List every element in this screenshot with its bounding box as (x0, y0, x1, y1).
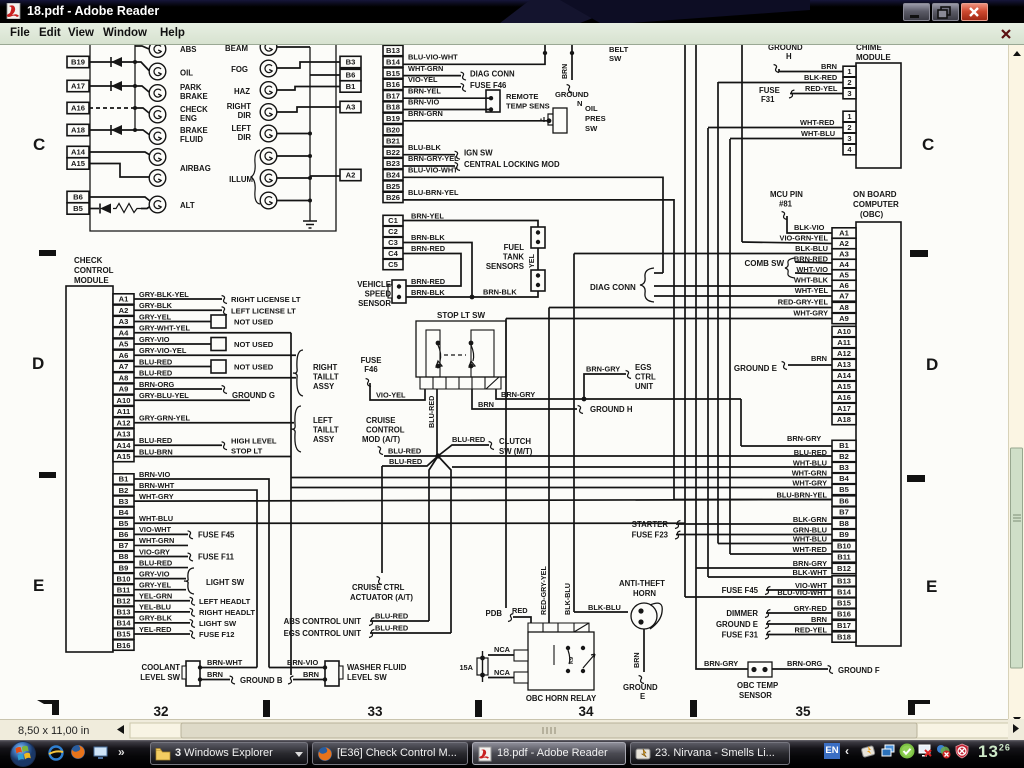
svg-text:RED-YEL: RED-YEL (795, 626, 828, 635)
svg-text:FUSE F11: FUSE F11 (198, 552, 235, 561)
oil pres sw contact (547, 118, 552, 123)
taskbar button: 18.pdf Adobe Reader (active) (472, 742, 626, 765)
restore button (932, 3, 959, 21)
close button (961, 3, 988, 21)
svg-text:TEMP SENS: TEMP SENS (506, 102, 550, 111)
belt sw pin 2 (571, 45, 573, 53)
wire ILLUM3 to bus (277, 200, 310, 202)
hook LIGHT SW 2 (190, 619, 195, 627)
wire A15 BLU-BRN (134, 456, 291, 458)
wire bus to B6 (310, 74, 340, 76)
vertical taillight/ground bus x291 (290, 333, 292, 675)
OBC pin B1 (832, 440, 856, 450)
lamp AIRBAG 2 (149, 170, 166, 187)
bus wire x730 WHT-BLU (729, 139, 731, 554)
cluster pin A17 (67, 80, 89, 91)
check control pin A10 (113, 395, 134, 405)
svg-text:CLUTCH: CLUTCH (499, 437, 531, 446)
svg-text:BRN: BRN (811, 615, 827, 624)
svg-text:VIO-YEL: VIO-YEL (376, 391, 406, 400)
svg-text:SPEED: SPEED (365, 290, 392, 299)
svg-text:B17: B17 (837, 621, 851, 630)
svg-text:OBC HORN RELAY: OBC HORN RELAY (526, 694, 597, 703)
svg-text:B4: B4 (119, 508, 129, 517)
OBC pin B13 (832, 576, 856, 586)
OBC pin B5 (832, 484, 856, 494)
column tick 33/34 (475, 700, 482, 717)
svg-text:GROUND E: GROUND E (734, 364, 778, 373)
svg-text:A9: A9 (119, 385, 129, 394)
minimize button (903, 3, 930, 21)
vertical BLK-BLU to horn (573, 254, 575, 613)
hook CLUTCH SW (489, 442, 494, 450)
svg-text:A2: A2 (346, 171, 356, 180)
wire WHT-GRN to OBC B4 (291, 477, 832, 479)
svg-text:B19: B19 (386, 114, 400, 123)
svg-text:HORN: HORN (633, 589, 656, 598)
svg-text:STOP LT SW: STOP LT SW (437, 311, 485, 320)
wire A6 GRY-VIO-YEL (134, 354, 296, 356)
svg-text:B10: B10 (117, 574, 131, 583)
wire RED-YEL to chime 3 (790, 93, 843, 95)
wire A8 BLU-RED (134, 377, 296, 379)
wire GRN-BLU fuse f23 to OBC B9 (676, 534, 832, 536)
svg-text:B14: B14 (837, 588, 852, 597)
check control pin A2 (113, 305, 134, 315)
wire jog OIL (135, 62, 149, 71)
belt sw contact 1 (543, 51, 547, 55)
cluster pin B6 (67, 191, 89, 202)
svg-text:A3: A3 (839, 250, 849, 259)
check control pin B13 (113, 607, 134, 617)
svg-text:CRUISE: CRUISE (366, 416, 395, 425)
svg-text:B9: B9 (119, 563, 129, 572)
OBC pin A13 (832, 359, 856, 369)
svg-text:GRY-VIO-YEL: GRY-VIO-YEL (139, 346, 187, 355)
wire B8 VIO-GRY (134, 555, 188, 557)
wire A7 BLU-RED (134, 366, 211, 368)
oil pressure switch symbol (553, 108, 567, 133)
OBC pin A14 (832, 370, 856, 380)
wire BRN-GRY stop sw to ground H rail (496, 389, 741, 399)
svg-text:WHT-BLU: WHT-BLU (793, 459, 827, 468)
svg-text:GROUND: GROUND (623, 683, 658, 692)
svg-text:A2: A2 (839, 239, 849, 248)
wire WHT-RED to chime conn2 pin2 (708, 127, 843, 129)
svg-text:A11: A11 (117, 407, 131, 416)
quick launch Firefox icon (70, 744, 86, 760)
svg-text:GROUND F: GROUND F (838, 666, 880, 675)
svg-text:WHT-RED: WHT-RED (793, 545, 828, 554)
svg-text:D: D (926, 355, 938, 374)
OBC pin A12 (832, 348, 856, 358)
svg-text:BLU-BLK: BLU-BLK (408, 143, 442, 152)
svg-text:BLU-RED: BLU-RED (388, 447, 422, 456)
svg-text:A10: A10 (117, 396, 131, 405)
svg-text:BRN-ORG: BRN-ORG (139, 380, 175, 389)
svg-text:ANTI-THEFT: ANTI-THEFT (619, 579, 665, 588)
svg-text:GRY-YEL: GRY-YEL (139, 581, 172, 590)
wire BLK-WHT to OBC B13 (708, 576, 832, 578)
relay internals (566, 646, 570, 650)
wire GRY-RED dimmer to OBC B16 (766, 612, 832, 614)
washer fluid level sw box (325, 661, 339, 686)
connector pin B16 (383, 79, 403, 89)
svg-text:B4: B4 (839, 474, 849, 483)
svg-text:FLUID: FLUID (180, 135, 203, 144)
svg-text:A8: A8 (839, 303, 849, 312)
wire EGS control unit (370, 632, 451, 634)
check control pin B8 (113, 551, 134, 561)
svg-text:B3: B3 (346, 58, 356, 67)
svg-text:BLU-RED: BLU-RED (427, 396, 436, 428)
wire BLU-RED cruise mod to junction (384, 455, 438, 457)
svg-text:A11: A11 (837, 338, 851, 347)
svg-text:BRN: BRN (207, 670, 223, 679)
wire BLU-RED to cruise actuator (381, 466, 383, 573)
svg-text:HIGH LEVEL: HIGH LEVEL (231, 436, 277, 445)
bus wire x708 WHT-RED (707, 128, 709, 577)
wire WHT-GRY to OBC B5 (291, 487, 832, 489)
NOT USED terminator A3 (211, 315, 226, 328)
wire BRN ground E to OBC B17 (766, 623, 832, 625)
svg-text:BRN-VIO: BRN-VIO (139, 470, 170, 479)
svg-text:GROUND: GROUND (555, 90, 589, 99)
hook GROUND E horn (639, 676, 644, 684)
svg-text:#81: #81 (779, 200, 793, 209)
cluster pin B19 (67, 56, 89, 67)
hook CENTRAL LOCKING MOD (455, 163, 460, 171)
ground N hook (567, 85, 572, 93)
hook EGS CTRL UNIT (626, 371, 631, 379)
belt sw pin 1 (544, 45, 546, 53)
svg-text:CRUISE CTRL: CRUISE CTRL (352, 583, 405, 592)
hook FUSE F46 b16 (461, 83, 466, 91)
hook EGS CONTROL UNIT (369, 630, 374, 638)
svg-text:B1: B1 (346, 82, 356, 91)
cluster pin right A2 (340, 169, 361, 180)
OBC pin B11 (832, 552, 856, 562)
svg-text:NCA: NCA (494, 645, 511, 654)
check control pin A5 (113, 339, 134, 349)
svg-text:N: N (577, 99, 582, 108)
connector pin B22 (383, 147, 403, 157)
OBC pin B15 (832, 598, 856, 608)
wire RED-GRY-YEL to OBC A8 (549, 307, 832, 309)
hook PDB (508, 614, 513, 622)
svg-text:B21: B21 (386, 137, 401, 146)
svg-text:BELT: BELT (609, 45, 629, 54)
cluster right ground bus (309, 47, 311, 221)
lamp BEAM (260, 39, 277, 56)
svg-text:FUSE F46: FUSE F46 (470, 81, 507, 90)
svg-text:CENTRAL LOCKING MOD: CENTRAL LOCKING MOD (464, 160, 560, 169)
wire B17 BRN-YEL (403, 97, 489, 99)
svg-text:A14: A14 (117, 441, 132, 450)
svg-text:SENSORS: SENSORS (486, 262, 524, 271)
svg-text:B10: B10 (837, 542, 851, 551)
svg-text:C: C (922, 135, 934, 154)
svg-text:NOT USED: NOT USED (234, 318, 274, 327)
wire B18 BRN-VIO (403, 109, 489, 111)
wire C4 BRN-RED to VSS (403, 254, 461, 287)
svg-text:BLU-RED: BLU-RED (139, 357, 173, 366)
svg-text:GRN-BLU: GRN-BLU (793, 526, 827, 535)
svg-text:B18: B18 (837, 633, 851, 642)
svg-text:FUSE: FUSE (361, 356, 382, 365)
svg-text:BLK-BLU: BLK-BLU (563, 583, 572, 615)
check control pin B4 (113, 507, 134, 517)
lamp RIGHT DIR (260, 104, 277, 121)
svg-text:B24: B24 (386, 171, 401, 180)
connector pin C3 (383, 237, 403, 247)
svg-text:BLU-RED: BLU-RED (139, 369, 173, 378)
fuel tank sensor upper (531, 227, 545, 248)
svg-text:PRES: PRES (585, 114, 606, 123)
svg-text:BLU-BRN: BLU-BRN (139, 447, 173, 456)
svg-text:DIMMER: DIMMER (726, 609, 758, 618)
svg-text:TAILLT: TAILLT (313, 426, 339, 435)
stop sw arm 1 (436, 345, 442, 367)
svg-text:VIO-WHT: VIO-WHT (139, 525, 172, 534)
stop lt sw bottom connector row (420, 377, 501, 389)
wire BRN-GRY to OBC B12 (696, 567, 832, 569)
wire RIGHT DIR to A3 (277, 107, 340, 112)
svg-text:FUSE F45: FUSE F45 (198, 530, 235, 539)
svg-text:B15: B15 (837, 599, 852, 608)
svg-text:OIL: OIL (180, 69, 193, 78)
NOT USED terminator A5 (211, 338, 226, 351)
wire coolant BRN to ground B (200, 679, 230, 681)
wire WHT-BLU to OBC B3 (452, 466, 832, 468)
svg-text:ENG: ENG (180, 114, 197, 123)
hook FUSE F45 right (765, 587, 770, 595)
remote temp sensor box (486, 90, 500, 112)
svg-text:B6: B6 (346, 71, 356, 80)
svg-text:2: 2 (847, 78, 851, 87)
svg-text:B13: B13 (837, 577, 851, 586)
taskbar button: 3 Windows Explorer (150, 742, 308, 765)
svg-text:B15: B15 (386, 69, 401, 78)
svg-text:VIO-GRY: VIO-GRY (139, 547, 170, 556)
svg-text:A8: A8 (119, 373, 129, 382)
bottom-left crop corner (37, 700, 59, 715)
title bar (0, 0, 1024, 23)
svg-text:STARTER: STARTER (632, 520, 669, 529)
svg-text:GROUND: GROUND (768, 45, 803, 52)
wire BRN-GRY to OBC B1 (741, 445, 832, 447)
wire BLU-RED 2 to junction (382, 456, 438, 466)
relay left pin boxes (514, 650, 528, 661)
svg-text:VEHICLE: VEHICLE (357, 280, 391, 289)
stop sw contact 2b (469, 364, 474, 369)
taskbar (0, 740, 1024, 768)
check control pin B3 (113, 496, 134, 506)
hook GROUND G (222, 386, 227, 394)
connector pin C5 (383, 259, 403, 269)
lamp ABS (149, 41, 166, 58)
quick launch IE icon (48, 745, 64, 761)
coolant level sw box (186, 661, 200, 686)
svg-text:GRY-BLK: GRY-BLK (139, 614, 173, 623)
hook DIAG CONN b15 (461, 72, 466, 80)
svg-text:A14: A14 (837, 371, 852, 380)
check control pin B12 (113, 596, 134, 606)
svg-text:A4: A4 (839, 260, 849, 269)
svg-text:BRN-BLK: BRN-BLK (411, 288, 445, 297)
check control pin A6 (113, 350, 134, 360)
stop sw contact 1b (436, 364, 441, 369)
svg-text:32: 32 (153, 704, 168, 719)
check control pin B7 (113, 540, 134, 550)
OBC pin A5 (832, 270, 856, 280)
svg-text:FUSE F45: FUSE F45 (722, 586, 759, 595)
svg-text:B13: B13 (386, 46, 400, 55)
OBC pin A8 (832, 302, 856, 312)
wire WHT-GRY to OBC A9 (506, 318, 832, 320)
svg-text:BLU-RED: BLU-RED (452, 435, 486, 444)
hook GROUND B right (288, 676, 293, 684)
hook DIMMER (765, 610, 770, 618)
svg-text:A1: A1 (839, 229, 849, 238)
svg-text:COOLANT: COOLANT (141, 663, 180, 672)
svg-text:RED-GRY-YEL: RED-GRY-YEL (539, 566, 548, 615)
instrument cluster box (90, 45, 336, 231)
svg-text:B14: B14 (117, 619, 132, 628)
check control pin B9 (113, 562, 134, 572)
svg-text:NOT USED: NOT USED (234, 340, 274, 349)
svg-text:B9: B9 (839, 530, 849, 539)
hook FUSE F31 b18 (765, 631, 770, 639)
svg-text:YEL-GRN: YEL-GRN (139, 592, 172, 601)
svg-text:BLU-RED: BLU-RED (375, 624, 409, 633)
svg-text:WHT-BLK: WHT-BLK (794, 276, 829, 285)
wire B13 YEL-BLU (134, 611, 190, 613)
wire B23 BRN-GRY-YEL (403, 165, 455, 167)
hook GROUND E A13 (782, 362, 787, 370)
svg-text:LIGHT SW: LIGHT SW (199, 619, 237, 628)
svg-text:B6: B6 (119, 530, 129, 539)
wire BLK-BLU to OBC A3 (574, 253, 832, 255)
wire B7 WHT-GRN (134, 544, 188, 546)
wire NCA lower (488, 677, 514, 679)
svg-text:B17: B17 (386, 91, 400, 100)
svg-text:A17: A17 (837, 404, 851, 413)
svg-text:B11: B11 (117, 585, 131, 594)
svg-text:BRN: BRN (821, 62, 837, 71)
cluster pin right B1 (340, 81, 361, 92)
svg-text:NOT USED: NOT USED (234, 363, 274, 372)
svg-text:MOD (A/T): MOD (A/T) (362, 435, 401, 444)
status bar with horizontal scrollbar (0, 719, 1008, 740)
wire VSS BRN-BLK (406, 296, 472, 298)
OBC pin A9 (832, 313, 856, 323)
wire BRN stop sw to ground H (472, 389, 577, 409)
svg-text:WHT-YEL: WHT-YEL (795, 286, 829, 295)
wire B12 YEL-GRN (134, 600, 190, 602)
svg-text:BLU-VIO-WHT: BLU-VIO-WHT (777, 588, 827, 597)
svg-text:ASSY: ASSY (313, 382, 335, 391)
svg-text:BRN-RED: BRN-RED (411, 277, 446, 286)
wire B15 YEL-RED (134, 633, 190, 635)
svg-text:COMB SW: COMB SW (744, 259, 784, 268)
svg-text:B1: B1 (119, 475, 129, 484)
svg-text:WASHER FLUID: WASHER FLUID (347, 663, 407, 672)
check control pin A12 (113, 418, 134, 428)
svg-text:CONTROL: CONTROL (366, 426, 405, 435)
svg-text:LEFT HEADLT: LEFT HEADLT (199, 597, 251, 606)
wire ILLUM2 to bus (277, 177, 310, 179)
connector pin B20 (383, 124, 403, 134)
lamp LEFT DIR (260, 125, 277, 142)
hook GROUND H top (774, 65, 779, 73)
svg-text:PARK: PARK (180, 83, 202, 92)
OBC pin A3 (832, 249, 856, 259)
svg-text:B8: B8 (119, 552, 129, 561)
svg-text:SW: SW (585, 124, 598, 133)
svg-text:C5: C5 (388, 260, 398, 269)
wire B5 WHT-BLU long (134, 522, 685, 524)
belt sw contact 2 (570, 51, 574, 55)
svg-text:(OBC): (OBC) (860, 210, 883, 219)
svg-text:A13: A13 (837, 360, 851, 369)
svg-text:CONTROL: CONTROL (74, 266, 114, 275)
svg-text:A6: A6 (839, 281, 849, 290)
on board computer box (856, 222, 901, 646)
svg-text:RIGHT: RIGHT (227, 102, 251, 111)
svg-text:A7: A7 (119, 362, 129, 371)
svg-text:BRN-WHT: BRN-WHT (207, 658, 243, 667)
svg-text:YEL-RED: YEL-RED (139, 625, 172, 634)
scrollbar up arrow (1009, 45, 1024, 719)
hook FUSE F45 left (188, 531, 193, 539)
svg-text:B16: B16 (837, 610, 851, 619)
svg-text:WHT-GRY: WHT-GRY (792, 479, 827, 488)
lamp BRAKE FLUID (149, 128, 166, 145)
hook GROUND E b17 (765, 621, 770, 629)
svg-text:GRY-VIO: GRY-VIO (139, 335, 170, 344)
wire jog ABS (135, 46, 149, 49)
OBC pin B3 (832, 462, 856, 472)
bus wire x742 to OBC A2 (741, 45, 743, 242)
svg-text:DIAG CONN: DIAG CONN (590, 283, 636, 292)
wire B5-ALT with diode and resistor (89, 208, 99, 210)
register dash right lower (907, 475, 925, 482)
svg-text:B16: B16 (386, 80, 400, 89)
svg-text:CHECK: CHECK (180, 105, 208, 114)
svg-text:ACTUATOR (A/T): ACTUATOR (A/T) (350, 593, 413, 602)
svg-text:BLU-VIO-WHT: BLU-VIO-WHT (408, 166, 458, 175)
OBC pin B12 (832, 563, 856, 573)
check control pin A8 (113, 373, 134, 383)
wire WHT-BLU to OBC B10 (718, 543, 832, 545)
svg-text:BRN-BLK: BRN-BLK (411, 233, 445, 242)
wire B2 BRN-WHT to coolant sw (134, 490, 257, 667)
svg-text:BRN-GRY: BRN-GRY (586, 365, 620, 374)
svg-text:LEFT: LEFT (232, 124, 252, 133)
svg-text:H: H (786, 52, 792, 61)
wire B19 BRN-GRN (403, 120, 548, 122)
stop lt sw inner housings (426, 330, 440, 377)
svg-text:A9: A9 (839, 314, 849, 323)
lamp HAZ (260, 82, 277, 99)
svg-text:B2: B2 (839, 452, 849, 461)
wire A18-BRAKE FLUID (89, 129, 135, 131)
svg-text:B25: B25 (386, 182, 401, 191)
wire VIO-WHT fuse f45 to OBC B14 (766, 589, 832, 591)
junction BRN-GRY (582, 397, 587, 402)
lamp ILLUM 1 (260, 148, 277, 165)
